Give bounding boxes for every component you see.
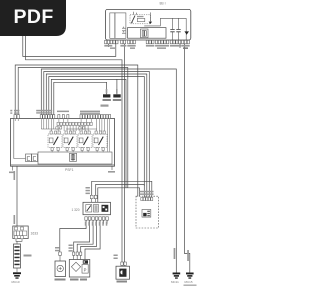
pump unit dashed box (ESP group) bbox=[136, 196, 159, 228]
capacitor C1 bbox=[170, 30, 174, 32]
svg-text:PSF1: PSF1 bbox=[65, 168, 74, 172]
wire h3 relay unit 1320 to pump unit body bbox=[98, 188, 140, 203]
PSF1 connector pins top middle sparse bbox=[58, 115, 69, 119]
relay K1 switch contact bbox=[132, 16, 135, 23]
svg-text:PDF: PDF bbox=[14, 6, 54, 28]
sensor 1241 box bbox=[55, 261, 66, 277]
wire PSF1 internal left feed bbox=[14, 119, 26, 159]
PSF1 connector pins top long row bbox=[80, 115, 111, 119]
wire GB BSI pin to ground MC15 bbox=[185, 44, 190, 273]
ground MC15 wire label bbox=[187, 250, 189, 261]
fuse box PSF1 outline bbox=[11, 119, 115, 167]
relay unit 1320 pins bottom row bbox=[85, 217, 109, 220]
PDF badge bbox=[0, 0, 66, 36]
wire MC2B ground branch bbox=[116, 79, 118, 94]
svg-text:1633: 1633 bbox=[31, 232, 39, 236]
1261 P sub-box bbox=[82, 265, 88, 274]
wire PSF1 internal bus bbox=[41, 128, 96, 130]
wire stub BSI pin near GB bbox=[179, 44, 181, 48]
pump assembly 1261 label bbox=[70, 279, 87, 281]
node ACC label bbox=[101, 105, 109, 107]
motor 1220 label bbox=[117, 281, 128, 283]
relay K1 value label bbox=[137, 16, 144, 17]
relay R4 in PSF1 bbox=[93, 131, 107, 151]
wire PSF1 pin drop stubs to relays bbox=[15, 119, 109, 152]
wire relay K1 output to diode bbox=[144, 18, 160, 26]
wire W6 PSF1 pin joining node at 1320 net bbox=[18, 68, 128, 188]
battery BB00 label bbox=[24, 255, 32, 257]
diode D1 (solid symbol) bbox=[149, 22, 153, 24]
fuse F2 in PSF1 strip bbox=[70, 153, 77, 161]
1320 fuse element bbox=[94, 205, 99, 213]
wire relay outputs into strip bbox=[52, 151, 103, 153]
PSF1 lower strip box bbox=[38, 152, 112, 164]
wire stub BSI pin group1 bbox=[108, 44, 110, 47]
wire f6 stub 1320 pin6 bbox=[103, 220, 105, 224]
relay unit 1320 box bbox=[83, 202, 111, 214]
control unit BSI1 outline bbox=[106, 9, 191, 40]
relay unit 1320 top pin labels bbox=[86, 187, 90, 194]
wire PSF1 bottom-right stub bbox=[111, 166, 113, 170]
relay K1 upper feed wires bbox=[133, 12, 150, 22]
1320 bottom pin labels bbox=[85, 222, 108, 226]
BSI1 inner enclosure bbox=[110, 13, 115, 38]
svg-text:8B I: 8B I bbox=[160, 2, 166, 6]
wire 1320 pins into box bbox=[92, 199, 96, 203]
pump assembly 1261 box bbox=[69, 260, 90, 278]
svg-text:1 320: 1 320 bbox=[72, 208, 80, 212]
wire left main feed PSF1 to connector 1633 bbox=[16, 166, 18, 226]
ground MC2B label bbox=[113, 99, 121, 101]
wire b6 PSF1 pin to ground MC2A bbox=[54, 82, 107, 114]
PSF1 bottom edge inner line bbox=[11, 164, 115, 166]
wire f5 1320 pin5 to pump 1261 body bbox=[85, 220, 100, 259]
wire battery to ground bbox=[16, 268, 18, 272]
wire h1 relay unit 1320 pin to pump unit pin 5 bbox=[92, 181, 152, 197]
motor 1220 wire labels bbox=[114, 255, 118, 260]
pump unit pin labels bbox=[140, 191, 154, 195]
ground MC11 wire label bbox=[174, 248, 176, 259]
wire f7 stub 1320 pin7 bbox=[106, 220, 108, 224]
wire 1261 pin stubs bbox=[74, 255, 81, 259]
sensor 1241 label bbox=[55, 279, 66, 281]
wire b2 PSF1 pin to pump unit pin 4 bbox=[44, 72, 150, 198]
wire b3 PSF1 pin to pump unit pin 3 bbox=[46, 74, 147, 197]
1261 dark icon bbox=[83, 260, 88, 263]
ground MC15 symbol bbox=[186, 273, 194, 279]
relay K1 coil bbox=[137, 18, 145, 21]
wire f1 1320 pin1 to sensor 1241 bbox=[60, 220, 86, 252]
BSI1 pin labels bbox=[104, 45, 189, 49]
wire b5 PSF1 pin through node to 1320 net bbox=[51, 79, 126, 187]
PSF1 pin labels top bbox=[10, 110, 100, 114]
PSF1 bottom-right stub label bbox=[108, 171, 115, 173]
wire h2 relay unit 1320 pin to pump unit pin 2b bbox=[96, 184, 145, 195]
wire f3 1320 pin3 to pump 1261 pin2 bbox=[77, 220, 93, 252]
ground MC2A label bbox=[103, 99, 111, 101]
connector C10 in PSF1 bbox=[26, 154, 32, 162]
ground MC10 bbox=[13, 272, 21, 278]
wire 1241 pin stub bbox=[59, 255, 61, 261]
svg-text:MC10: MC10 bbox=[12, 280, 20, 284]
1320 motor element (dark) bbox=[102, 205, 109, 212]
wire f4 1320 pin4 to pump 1261 pin3 bbox=[81, 220, 97, 252]
relay R3 in PSF1 bbox=[78, 131, 92, 151]
ground MC2B stub bar bbox=[113, 94, 120, 97]
ground MC2A wire label bbox=[106, 89, 108, 93]
wire label left feed lower bbox=[14, 215, 16, 224]
motor 1220 dark motor symbol bbox=[119, 269, 126, 277]
connector C11 in PSF1 bbox=[32, 154, 38, 162]
wire PSF1 bottom stub bbox=[12, 166, 14, 170]
wire label left feed upper bbox=[14, 171, 16, 180]
relay K1 dashed box inside BSI1 bbox=[130, 15, 151, 24]
capacitor C2 bbox=[176, 30, 180, 32]
wire 1220 pin stubs bbox=[122, 264, 125, 267]
wire 1633 to battery bbox=[16, 239, 22, 244]
battery BB00 bbox=[14, 244, 21, 268]
BSI1 internal module box bbox=[115, 13, 126, 38]
relay R1 in PSF1 bbox=[48, 131, 62, 151]
sensor 1241 top pin bbox=[59, 252, 62, 255]
pump unit EDP icon bbox=[142, 210, 151, 218]
BSI1 lower module box bbox=[128, 28, 167, 39]
motor 1220 top pins bbox=[121, 262, 127, 265]
svg-text:P: P bbox=[84, 268, 87, 273]
1320 switch element bbox=[86, 205, 92, 213]
wire W5 PSF1 pin to pump unit body bbox=[15, 65, 138, 196]
PSF1 inner pin row A bbox=[57, 122, 92, 125]
svg-text:MC11: MC11 bbox=[171, 280, 179, 284]
PSF1 connector pins top cluster 2 bbox=[40, 115, 55, 119]
relay unit 1320 pin squares top bbox=[90, 195, 97, 198]
wire W3 BSI pin to motor 1220 right pin bbox=[124, 44, 126, 262]
ground MC11 symbol bbox=[173, 273, 181, 279]
1261 diamond valve symbol bbox=[71, 262, 80, 271]
motor 1220 box bbox=[116, 266, 130, 279]
ground MC2A stub bar bbox=[103, 94, 110, 97]
pump unit connector pins bbox=[141, 197, 153, 200]
ground MC15 sub label bbox=[184, 285, 197, 286]
wire W2 feed to motor 1220 left pin bbox=[26, 36, 122, 262]
wire W1 battery feed to BSI pin bbox=[23, 36, 116, 56]
connector 1633 bbox=[13, 226, 28, 239]
BSI1 internal module contacts bbox=[122, 27, 126, 34]
wire labels near fan wires bbox=[55, 245, 73, 252]
svg-text:MC15: MC15 bbox=[185, 280, 193, 284]
wire capacitor feeders bbox=[160, 18, 186, 40]
relay R2 in PSF1 bbox=[63, 131, 77, 151]
ground MC2B wire label bbox=[116, 89, 118, 93]
wire f2 1320 pin2 to pump 1261 pin1 bbox=[74, 220, 90, 252]
wire b4 PSF1 pin to pump unit pin 2 bbox=[49, 77, 145, 198]
PSF1 connector pins top cluster 1 bbox=[14, 115, 19, 119]
diode D2 (solid symbol) bbox=[184, 31, 189, 34]
fuse F1 inside BSI1 bbox=[141, 29, 149, 38]
pump assembly 1261 top pins bbox=[73, 252, 82, 255]
relay K1 switch pivot dot bbox=[131, 22, 132, 23]
PSF1 bottom stub label bbox=[9, 172, 15, 174]
PSF1 bus junction squares bbox=[56, 127, 85, 129]
BSI1 connector pins bottom row bbox=[105, 40, 190, 44]
wire GA PSF1 pin to ground MC11 bbox=[41, 69, 176, 273]
